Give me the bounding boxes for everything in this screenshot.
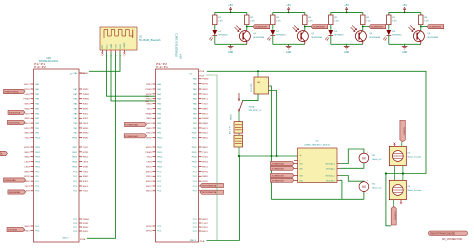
svg-text:PB14: PB14 <box>157 162 163 164</box>
svg-text:SNS1: SNS1 <box>83 138 89 140</box>
svg-text:SWD1: SWD1 <box>146 181 153 183</box>
svg-text:SFH313FA: SFH313FA <box>253 36 264 39</box>
svg-text:MTR2: MTR2 <box>24 147 30 149</box>
svg-text:Motor_DC: Motor_DC <box>372 158 382 161</box>
svg-text:MOT-A(-): MOT-A(-) <box>326 167 335 170</box>
svg-text:1.5K: 1.5K <box>334 21 339 23</box>
svg-text:PB10: PB10 <box>35 138 41 140</box>
svg-text:P.1/:P1: P.1/:P1 <box>156 65 168 69</box>
svg-text:SWD1: SWD1 <box>202 108 209 110</box>
svg-text:KEY: KEY <box>102 44 104 49</box>
svg-text:TXD1: TXD1 <box>24 113 30 115</box>
svg-text:SNS2: SNS2 <box>24 108 30 110</box>
svg-text:RxD: RxD <box>145 101 149 103</box>
svg-text:PB13: PB13 <box>157 157 163 159</box>
svg-text:+5V: +5V <box>344 3 349 7</box>
svg-text:SFH4550: SFH4550 <box>276 35 286 37</box>
svg-text:LED3: LED3 <box>147 162 153 164</box>
svg-text:SW1A: SW1A <box>249 106 255 109</box>
svg-text:SNS2: SNS2 <box>24 157 30 159</box>
svg-text:M: M <box>362 184 365 189</box>
svg-text:MTR1: MTR1 <box>146 230 152 232</box>
svg-text:U3 L7805: U3 L7805 <box>251 82 253 92</box>
svg-text:ICOM6DCA31: ICOM6DCA31 <box>126 123 139 126</box>
svg-text:PWM1: PWM1 <box>83 219 90 221</box>
svg-text:RXD1: RXD1 <box>146 123 152 125</box>
svg-text:RXD1: RXD1 <box>202 133 208 135</box>
svg-text:RXD1: RXD1 <box>202 227 208 229</box>
svg-text:MOTORENC2A: MOTORENC2A <box>202 191 217 194</box>
svg-text:IR-SENSOR2: IR-SENSOR2 <box>313 27 326 29</box>
svg-text:SFH313FA: SFH313FA <box>311 36 322 39</box>
svg-text:SNS1: SNS1 <box>146 128 152 130</box>
svg-text:P5.A: P5.A <box>200 240 205 243</box>
svg-text:RXD1: RXD1 <box>146 84 152 86</box>
svg-text:SM1.2: SM1.2 <box>62 238 69 240</box>
svg-text:NO_CONNECTION: NO_CONNECTION <box>442 239 463 241</box>
svg-text:IR-SENSOR4: IR-SENSOR4 <box>429 27 442 29</box>
svg-text:ENC1: ENC1 <box>202 128 208 130</box>
svg-text:SWD1: SWD1 <box>146 147 153 149</box>
svg-text:SM1.3: SM1.3 <box>190 240 197 242</box>
svg-text:RXD1: RXD1 <box>202 94 208 96</box>
svg-text:2CLM10A: 2CLM10A <box>8 229 17 232</box>
svg-text:P5L9: P5L9 <box>199 75 205 77</box>
svg-text:MTR2: MTR2 <box>202 84 209 86</box>
svg-text:SFH313FA: SFH313FA <box>369 36 380 39</box>
svg-text:RXD1: RXD1 <box>146 176 152 178</box>
svg-text:Motor_encoder: Motor_encoder <box>408 156 422 159</box>
svg-text:PB14: PB14 <box>35 162 41 164</box>
svg-text:TXD1: TXD1 <box>146 157 152 159</box>
svg-text:STM32F103-10IC1: STM32F103-10IC1 <box>175 33 179 57</box>
svg-text:GND: GND <box>344 52 349 54</box>
svg-text:U1B: U1B <box>46 58 51 60</box>
svg-text:SNS1: SNS1 <box>24 152 30 154</box>
svg-text:PWM2: PWM2 <box>202 118 209 120</box>
svg-text:RXD: RXD <box>120 44 122 49</box>
svg-text:IR-SENSOR3: IR-SENSOR3 <box>371 27 384 29</box>
svg-text:2COM6DCA4: 2COM6DCA4 <box>272 167 285 170</box>
svg-text:MTR2: MTR2 <box>83 89 90 91</box>
svg-text:SNS2: SNS2 <box>202 89 208 91</box>
svg-text:ENC1: ENC1 <box>146 191 152 193</box>
svg-text:POWER5V: POWER5V <box>402 127 404 136</box>
svg-text:K410G19CA: K410G19CA <box>8 121 20 124</box>
svg-text:ENC2: ENC2 <box>24 84 30 86</box>
svg-text:HC-05-RF_Bluetooth: HC-05-RF_Bluetooth <box>139 39 161 42</box>
svg-text:ENC1: ENC1 <box>83 186 89 188</box>
svg-text:RXD1: RXD1 <box>83 104 89 106</box>
svg-text:SNS1: SNS1 <box>24 133 30 135</box>
svg-text:ENC1: ENC1 <box>202 99 208 101</box>
svg-text:1.5K: 1.5K <box>218 21 223 23</box>
svg-text:ENC2: ENC2 <box>146 166 152 168</box>
svg-text:LED3: LED3 <box>25 94 31 96</box>
svg-text:PWM2: PWM2 <box>202 79 209 81</box>
svg-text:TXD1: TXD1 <box>83 191 89 193</box>
svg-text:P51B: P51B <box>80 239 86 241</box>
svg-text:SWD1: SWD1 <box>202 123 209 125</box>
svg-text:PB12: PB12 <box>157 152 163 154</box>
svg-text:LED3: LED3 <box>25 166 31 168</box>
svg-text:M: M <box>362 156 365 161</box>
svg-text:1.2K: 1.2K <box>366 21 371 23</box>
svg-text:RXD1: RXD1 <box>83 181 89 183</box>
svg-text:MTR1: MTR1 <box>83 152 90 154</box>
svg-text:PWM1: PWM1 <box>83 99 90 101</box>
svg-text:1.5K: 1.5K <box>276 21 281 23</box>
svg-text:BT1 3.7V: BT1 3.7V <box>230 125 232 134</box>
svg-text:MTR2: MTR2 <box>83 133 90 135</box>
svg-text:1.2K: 1.2K <box>250 21 255 23</box>
svg-text:SNS1: SNS1 <box>83 128 89 130</box>
svg-text:P5L8: P5L8 <box>199 71 205 73</box>
svg-text:KINBUSCM42A: KINBUSCM42A <box>5 91 20 94</box>
svg-text:MTR1: MTR1 <box>202 162 209 164</box>
svg-text:SNS2: SNS2 <box>202 147 208 149</box>
svg-text:K410G01AB: K410G01AB <box>9 191 21 194</box>
svg-text:+: + <box>300 153 302 157</box>
svg-text:TXD1: TXD1 <box>146 108 152 110</box>
svg-text:VCC: VCC <box>106 44 108 49</box>
svg-text:MTR1: MTR1 <box>202 171 209 173</box>
svg-text:PWM1: PWM1 <box>24 99 31 101</box>
svg-text:MOT-B(+): MOT-B(+) <box>326 176 335 178</box>
svg-text:ENC2: ENC2 <box>146 186 152 188</box>
svg-text:GND: GND <box>111 43 113 48</box>
svg-text:U1A: U1A <box>178 54 182 59</box>
svg-text:GM: GM <box>257 82 260 84</box>
svg-text:TXD1: TXD1 <box>83 147 89 149</box>
svg-text:SNS1: SNS1 <box>24 104 30 106</box>
svg-text:SNS2: SNS2 <box>202 138 208 140</box>
svg-text:MOTORENC1A: MOTORENC1A <box>202 185 217 188</box>
svg-text:GND: GND <box>228 52 233 54</box>
svg-text:PWM1: PWM1 <box>83 94 90 96</box>
svg-text:2COM6DCA3: 2COM6DCA3 <box>272 163 285 166</box>
svg-text:MTR2: MTR2 <box>146 226 152 228</box>
svg-text:ENC1: ENC1 <box>83 157 89 159</box>
svg-text:LED3: LED3 <box>83 162 89 164</box>
svg-text:MOT-A(+): MOT-A(+) <box>326 163 335 166</box>
svg-text:SNS1: SNS1 <box>24 226 30 228</box>
svg-text:SNS2: SNS2 <box>24 181 30 183</box>
svg-text:SWD1: SWD1 <box>202 176 209 178</box>
svg-text:SNS2: SNS2 <box>24 171 30 173</box>
svg-text:SFH4550: SFH4550 <box>218 35 228 37</box>
svg-text:RXD1: RXD1 <box>83 113 89 115</box>
svg-text:MTR1: MTR1 <box>83 166 90 168</box>
svg-text:SNS1: SNS1 <box>83 108 89 110</box>
svg-text:+5V: +5V <box>286 3 291 7</box>
svg-text:RXD1: RXD1 <box>24 128 30 130</box>
svg-text:SW_DPST_x2: SW_DPST_x2 <box>249 110 263 112</box>
svg-text:1.2K: 1.2K <box>308 21 313 23</box>
svg-text:Motor_encoder: Motor_encoder <box>408 189 422 192</box>
svg-text:RXD1: RXD1 <box>24 230 30 232</box>
svg-text:+5V: +5V <box>228 3 233 7</box>
svg-text:SNS2: SNS2 <box>83 176 89 178</box>
svg-text:MTR2: MTR2 <box>24 176 30 178</box>
svg-text:1.2K: 1.2K <box>424 21 429 23</box>
svg-text:GND: GND <box>402 52 407 54</box>
svg-text:TXD1: TXD1 <box>24 138 30 140</box>
svg-text:RXD1: RXD1 <box>83 231 89 233</box>
svg-text:1: 1 <box>102 55 104 56</box>
svg-text:2COM6DCB3: 2COM6DCB3 <box>272 176 285 178</box>
svg-text:SW1B: SW1B <box>231 114 233 120</box>
svg-text:-: - <box>300 158 301 162</box>
svg-text:PWM1: PWM1 <box>146 152 153 154</box>
svg-text:TXD1: TXD1 <box>202 223 208 225</box>
svg-text:2COM6DCB4: 2COM6DCB4 <box>272 180 285 182</box>
svg-text:ENC2: ENC2 <box>24 123 30 125</box>
svg-text:SNS2: SNS2 <box>24 118 30 120</box>
svg-text:MTR1: MTR1 <box>24 89 30 91</box>
svg-text:P.2/:P2: P.2/:P2 <box>34 65 46 69</box>
svg-text:IR-SENSOR1: IR-SENSOR1 <box>255 27 268 29</box>
svg-text:LED3: LED3 <box>25 162 31 164</box>
svg-text:RIGHT1TRANSC1MODE: RIGHT1TRANSC1MODE <box>430 233 455 236</box>
svg-text:+5V: +5V <box>402 3 407 7</box>
svg-text:MTR2: MTR2 <box>146 138 152 140</box>
svg-text:PWM2: PWM2 <box>146 113 153 115</box>
svg-text:RXD1: RXD1 <box>83 118 89 120</box>
svg-text:ENC2: ENC2 <box>202 166 208 168</box>
svg-text:P4L8: P4L8 <box>80 73 86 75</box>
svg-text:SNS2: SNS2 <box>83 227 89 229</box>
svg-text:TXD: TXD <box>115 44 117 49</box>
svg-text:ENC2: ENC2 <box>202 113 208 115</box>
svg-text:L298N_2EW-MC?_Module: L298N_2EW-MC?_Module <box>304 145 331 147</box>
svg-text:MTR1: MTR1 <box>83 223 90 225</box>
svg-text:SNS2: SNS2 <box>146 104 152 106</box>
svg-text:6: 6 <box>124 55 126 56</box>
svg-text:K410G23CA: K410G23CA <box>9 111 21 114</box>
svg-text:Motor_DC: Motor_DC <box>372 187 382 190</box>
svg-text:RXD1: RXD1 <box>146 133 152 135</box>
svg-text:MOT-B(-): MOT-B(-) <box>326 180 335 182</box>
svg-text:TXD1: TXD1 <box>202 104 208 106</box>
svg-text:LED3: LED3 <box>202 181 208 183</box>
svg-text:STATE: STATE <box>123 42 126 49</box>
svg-text:SWD1: SWD1 <box>146 171 153 173</box>
svg-text:SFH313FA: SFH313FA <box>427 36 438 39</box>
svg-text:K410G02AB: K410G02AB <box>5 179 17 182</box>
svg-text:TXD1: TXD1 <box>24 186 30 188</box>
svg-text:PB15: PB15 <box>35 166 41 168</box>
svg-text:1.5K: 1.5K <box>392 21 397 23</box>
svg-text:PB12: PB12 <box>35 152 41 154</box>
svg-text:GND: GND <box>286 52 291 54</box>
svg-text:PB15: PB15 <box>157 166 163 168</box>
svg-text:PWM1: PWM1 <box>146 89 153 91</box>
svg-text:TxD: TxD <box>145 96 149 98</box>
svg-text:ICOM6DCA41: ICOM6DCA41 <box>125 135 138 138</box>
svg-text:POWER0V: POWER0V <box>393 212 395 221</box>
svg-text:SNS2: SNS2 <box>146 118 152 120</box>
svg-text:PB10: PB10 <box>157 138 163 140</box>
svg-text:LED3: LED3 <box>83 123 89 125</box>
svg-text:SFH4550: SFH4550 <box>392 35 402 37</box>
svg-text:LED3: LED3 <box>202 157 208 159</box>
svg-text:SFH4550: SFH4550 <box>334 35 344 37</box>
svg-text:TXD1: TXD1 <box>83 171 89 173</box>
svg-text:PB13: PB13 <box>35 157 41 159</box>
svg-text:TXD1: TXD1 <box>202 152 208 154</box>
svg-text:ENC2: ENC2 <box>202 231 208 233</box>
svg-text:SNS2: SNS2 <box>202 219 208 221</box>
